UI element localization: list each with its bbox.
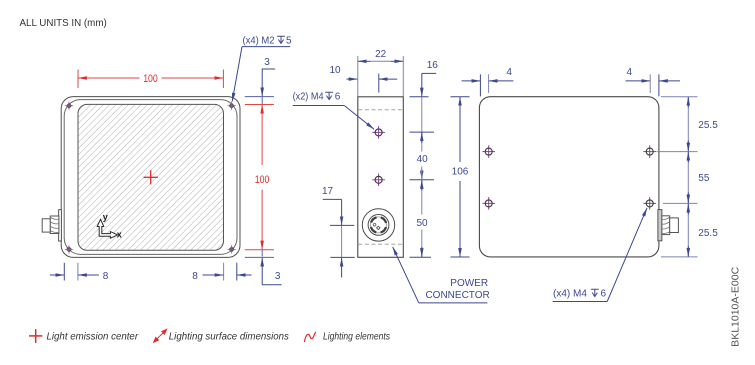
svg-text:10: 10	[329, 65, 341, 76]
svg-text:(x4) M4: (x4) M4	[553, 289, 587, 300]
dim 4 right witness ticks	[649, 74, 651, 93]
dim 10 center tick	[378, 74, 380, 93]
svg-text:Lighting elements: Lighting elements	[323, 332, 390, 343]
light emission center cross	[144, 170, 158, 184]
middle view dashed line bottom	[358, 243, 403, 245]
dim 3 bottom: body edge witness	[245, 256, 274, 258]
middle view dashed line top	[358, 109, 403, 111]
dim 100 horizontal witness right	[222, 70, 224, 89]
svg-text:55: 55	[698, 173, 710, 184]
svg-text:3: 3	[275, 271, 281, 282]
right view hole top-right	[643, 145, 656, 158]
front view chamfer contour	[64, 100, 237, 255]
dim 8 right witness ticks	[223, 263, 225, 281]
svg-text:4: 4	[627, 67, 633, 78]
right view body	[479, 97, 659, 257]
dim 4 left witness ticks	[479, 74, 481, 96]
callout (x4) M4 depth 6	[553, 208, 647, 302]
svg-text:40: 40	[417, 154, 429, 165]
svg-text:8: 8	[103, 271, 109, 282]
dim 4 left arrows	[462, 80, 514, 82]
svg-text:8: 8	[192, 271, 198, 282]
right chain witness hole2	[663, 202, 698, 204]
svg-text:Light emission center: Light emission center	[47, 332, 139, 343]
dim 22 line + arrows	[358, 60, 403, 62]
right chain line	[687, 97, 689, 257]
svg-text:100: 100	[255, 174, 270, 186]
svg-text:3: 3	[264, 57, 270, 68]
power connector front circle	[362, 209, 394, 241]
svg-text:6: 6	[335, 92, 341, 103]
dim 3 top: body edge witness	[245, 96, 274, 98]
svg-text:22: 22	[375, 49, 387, 60]
dim 8 left witness ticks	[63, 263, 65, 281]
svg-text:25.5: 25.5	[698, 228, 718, 239]
svg-text:Lighting surface dimensions: Lighting surface dimensions	[169, 332, 289, 343]
svg-text:106: 106	[452, 167, 469, 178]
right view hole bottom-left	[482, 197, 495, 210]
dim 3 bottom leader	[262, 250, 281, 285]
witness tick hole2 level	[410, 179, 435, 181]
xy axis icon	[97, 219, 117, 238]
right chain witness top	[661, 96, 698, 98]
legend: lighting surface dimensions symbol	[154, 329, 167, 342]
svg-text:ALL UNITS IN (mm): ALL UNITS IN (mm)	[20, 18, 107, 29]
svg-text:16: 16	[427, 60, 439, 71]
right chain witness bottom	[661, 256, 698, 258]
dim 22 witness right	[402, 56, 404, 97]
dim 4 right arrows	[626, 80, 681, 82]
witness tick connector level	[330, 224, 354, 226]
svg-text:POWER: POWER	[450, 278, 488, 289]
dim 106 line + arrows	[459, 97, 461, 257]
front view connector flange	[59, 210, 62, 241]
front view lighting surface (hatched)	[78, 104, 224, 250]
svg-text:x: x	[117, 229, 122, 239]
svg-text:BKL1010A-E00C: BKL1010A-E00C	[730, 266, 742, 346]
front view outer body	[61, 97, 240, 258]
svg-text:50: 50	[416, 218, 428, 229]
screw top-left	[65, 102, 73, 110]
right view connector knurled nut	[662, 216, 670, 235]
svg-text:(x2) M4: (x2) M4	[293, 92, 324, 103]
callout (x2) M4 depth 6	[293, 92, 374, 130]
dim 10 arrows	[347, 78, 398, 80]
dim 100 vertical witness bottom	[245, 249, 274, 251]
screw bottom-right	[227, 245, 235, 253]
svg-text:y: y	[103, 212, 108, 222]
middle hole 1 (M4)	[372, 126, 385, 139]
dim 3 top leader	[262, 69, 275, 104]
dim 40 arrows	[421, 133, 423, 180]
dim 100 horizontal line + arrows	[78, 77, 223, 79]
right chain arrows	[687, 97, 689, 257]
svg-text:25.5: 25.5	[698, 120, 718, 131]
legend: light emission center symbol	[29, 329, 42, 343]
witness tick middle bottom right	[410, 256, 432, 258]
dim 16/40 shared line	[421, 97, 423, 152]
dim 50 line	[421, 167, 423, 215]
front view connector cap	[42, 219, 50, 232]
power connector label leader	[393, 247, 488, 303]
dim 22 witness left	[357, 56, 359, 97]
dim 100 vertical line + arrows	[261, 105, 263, 250]
callout (x4) M2 depth 5	[232, 35, 292, 101]
dim 100 horizontal (red) witness left	[77, 70, 79, 89]
svg-text:6: 6	[601, 289, 607, 300]
dim 100 vertical (red) witness top	[245, 104, 274, 106]
right view hole bottom-right	[643, 197, 656, 210]
front view connector knurled nut	[50, 216, 59, 234]
svg-text:5: 5	[286, 35, 292, 46]
middle view body	[358, 97, 404, 257]
dim 50 arrows	[421, 180, 423, 257]
dim 16 label + leader	[422, 73, 436, 96]
dim 8 left arrows	[50, 274, 99, 276]
right view hole top-left	[482, 145, 495, 158]
svg-text:(x4) M2: (x4) M2	[243, 35, 275, 46]
svg-text:CONNECTOR: CONNECTOR	[425, 290, 489, 301]
svg-text:100: 100	[143, 73, 158, 85]
witness tick hole1 level	[410, 131, 435, 133]
legend: lighting elements symbol	[304, 332, 315, 342]
middle hole 2 (M4)	[372, 174, 385, 187]
svg-text:4: 4	[506, 67, 512, 78]
witness tick at middle top right	[410, 96, 429, 98]
right view connector cap	[670, 218, 679, 233]
witness tick middle bottom left	[330, 256, 354, 258]
dim 106 witness bottom	[451, 256, 470, 258]
screw bottom-left	[65, 245, 73, 253]
screw top-right	[227, 102, 235, 110]
right chain witness hole1	[657, 151, 698, 153]
dim 8 right arrows	[203, 274, 252, 276]
dim 106 witness top	[451, 96, 470, 98]
right view connector flange	[658, 210, 662, 241]
svg-text:17: 17	[322, 186, 334, 197]
